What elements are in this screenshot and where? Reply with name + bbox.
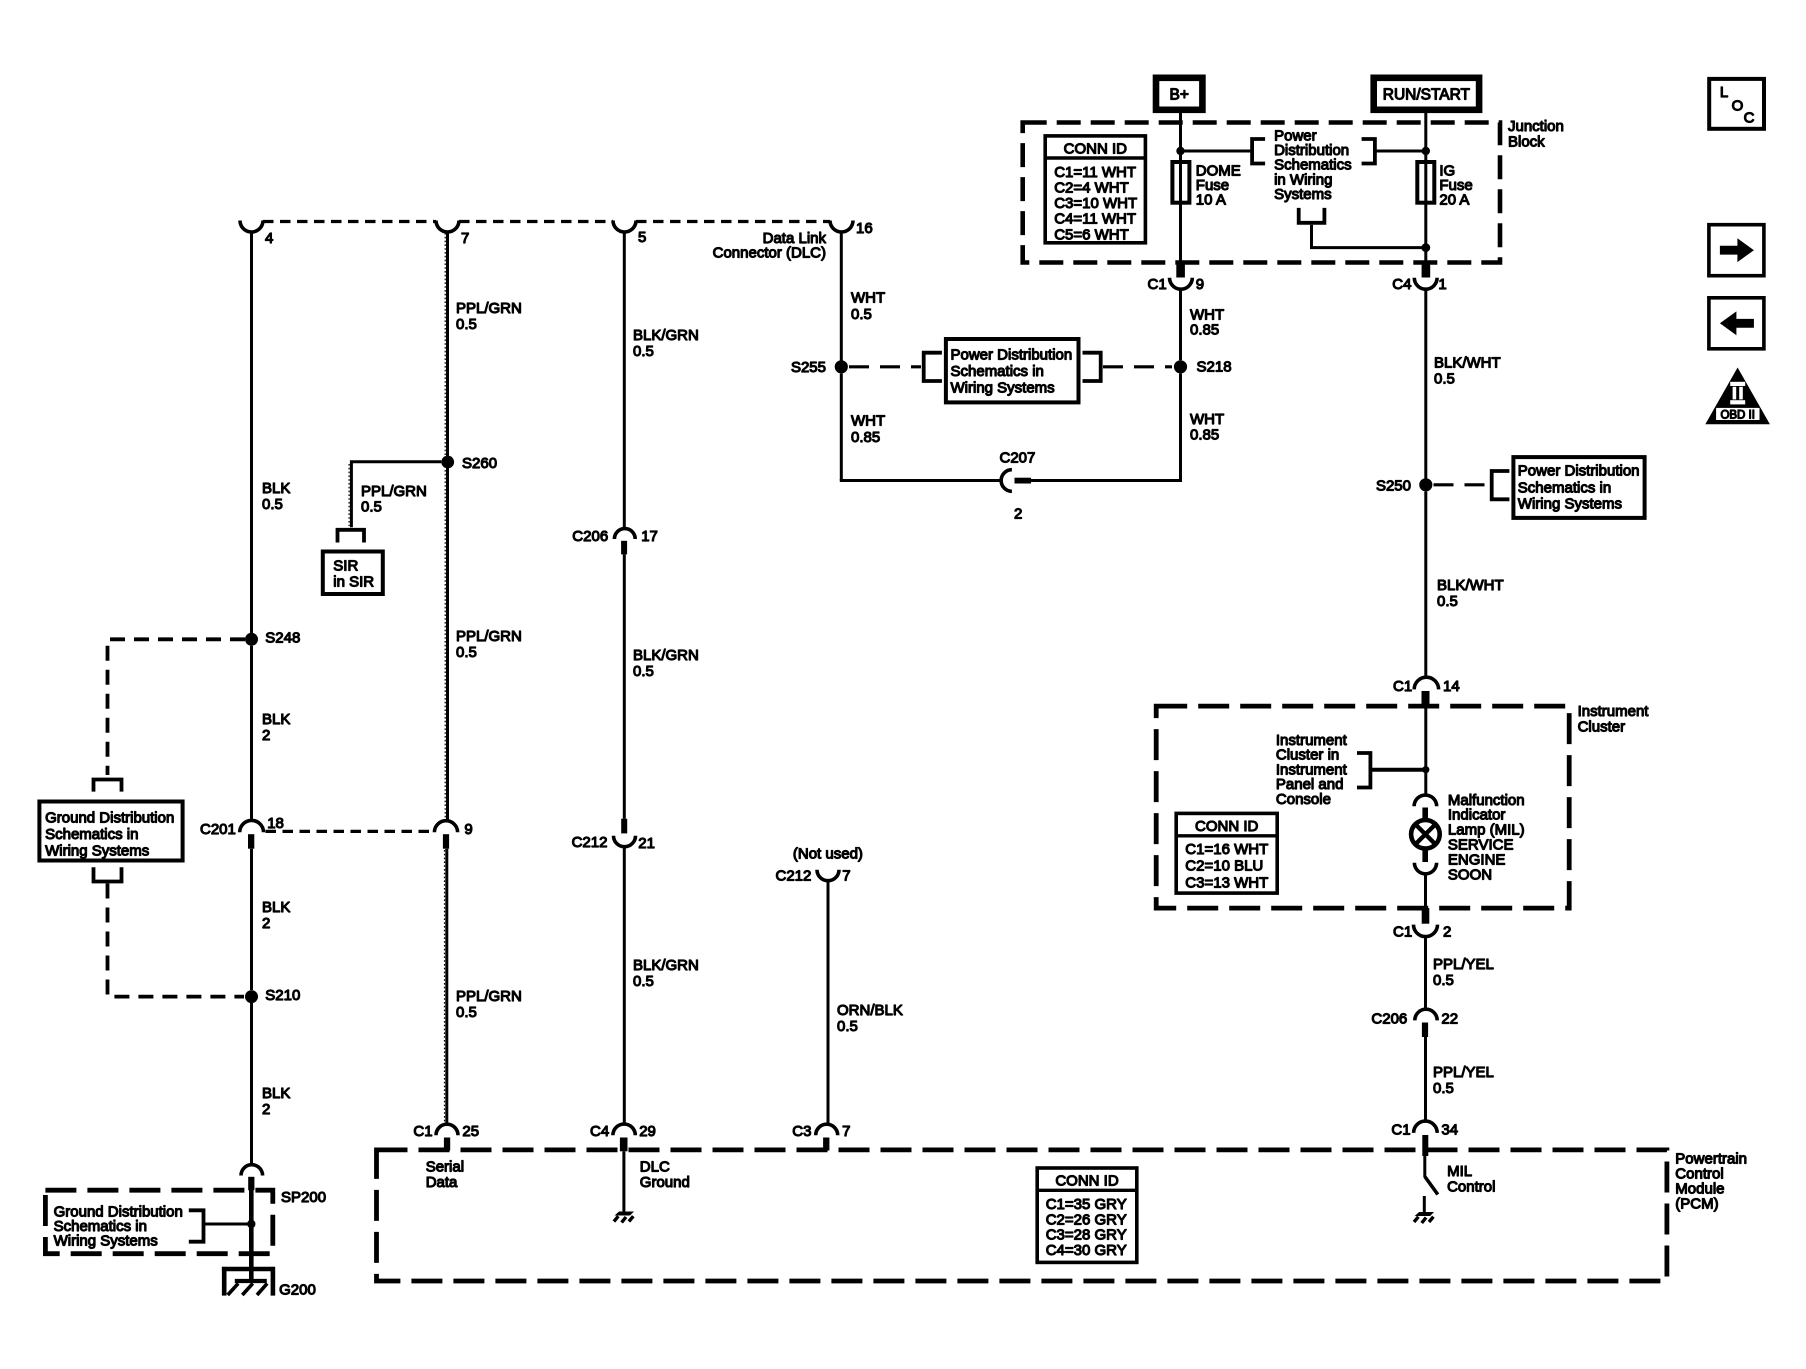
svg-text:C: C — [1744, 109, 1755, 126]
svg-text:C1: C1 — [1148, 276, 1167, 293]
enclosure: SP200 dashed box — [45, 1190, 272, 1254]
svg-text:PPL/YEL: PPL/YEL — [1433, 1064, 1494, 1081]
wire: ORN/BLK 0.5 from C212 pin 7 to C3 pin 7 — [827, 881, 830, 1123]
splice S248 — [245, 633, 258, 646]
svg-text:Wiring Systems: Wiring Systems — [1518, 495, 1622, 512]
wire: bracket to IG fuse feed — [1375, 150, 1426, 153]
svg-text:BLK/GRN: BLK/GRN — [633, 327, 699, 344]
svg-text:Wiring Systems: Wiring Systems — [54, 1233, 158, 1250]
svg-text:C212: C212 — [776, 867, 812, 884]
svg-text:CONN ID: CONN ID — [1064, 140, 1128, 157]
wire: BLK/GRN 0.5 from C212 to C4 pin 29 — [623, 847, 626, 1124]
wire: PPL/GRN 0.5 from DLC pin 7 to S260 — [446, 232, 449, 457]
wire: lamp feed inside cluster — [1424, 707, 1427, 796]
svg-text:5: 5 — [638, 229, 646, 246]
svg-text:C3=13 WHT: C3=13 WHT — [1185, 874, 1268, 891]
wire: lower bracket link to IG line — [1312, 225, 1426, 248]
svg-text:Ground: Ground — [640, 1174, 690, 1191]
node: tap on lamp feed — [1422, 766, 1429, 773]
svg-text:0.85: 0.85 — [1190, 427, 1219, 444]
connector C4 pin 29 (PCM) — [613, 1124, 635, 1135]
svg-text:PPL/GRN: PPL/GRN — [456, 628, 522, 645]
bracket: SIR callout bracket — [338, 530, 365, 543]
enclosure: Junction Block dashed box — [1023, 123, 1500, 263]
svg-text:Systems: Systems — [1274, 186, 1332, 203]
svg-text:14: 14 — [1443, 678, 1460, 695]
wire: WHT 0.5 from DLC pin 16 to S255 — [840, 232, 843, 362]
wire: DLC internal bus (dashed) — [263, 220, 830, 223]
svg-text:BLK/GRN: BLK/GRN — [633, 957, 699, 974]
svg-text:BLK: BLK — [262, 899, 290, 916]
svg-text:29: 29 — [639, 1123, 656, 1140]
wire: dashed reference S250 to Power Distribution callout — [1434, 483, 1489, 486]
svg-text:(PCM): (PCM) — [1675, 1196, 1718, 1213]
svg-text:Serial: Serial — [426, 1159, 464, 1176]
power feed box RUN/START — [1374, 78, 1479, 110]
svg-text:OBD II: OBD II — [1720, 409, 1755, 421]
svg-text:Schematics in: Schematics in — [951, 363, 1044, 380]
svg-text:0.5: 0.5 — [851, 306, 872, 323]
svg-text:C3: C3 — [792, 1123, 811, 1140]
svg-text:4: 4 — [265, 230, 273, 247]
wire: callout link to lamp feed — [1370, 768, 1425, 772]
bracket: callout bracket below Ground Distribution box — [94, 867, 122, 881]
node: junction at IG line — [1421, 243, 1430, 252]
svg-text:Schematics in: Schematics in — [45, 826, 138, 843]
bracket: S250 callout bracket — [1492, 471, 1510, 499]
connector C206 pin 22 (in-line) — [1415, 1009, 1437, 1020]
wire: C207 bus left segment — [840, 479, 1001, 482]
svg-text:C207: C207 — [1000, 450, 1036, 467]
svg-text:2: 2 — [262, 915, 270, 932]
svg-text:C1=16 WHT: C1=16 WHT — [1185, 841, 1268, 858]
icon: LOC box — [1709, 79, 1764, 129]
table: CONN ID (Instrument Cluster) — [1176, 813, 1277, 893]
svg-text:BLK: BLK — [262, 711, 290, 728]
wire: BLK 2 from S210 to SP200 — [250, 1003, 253, 1164]
splice S210 — [245, 990, 258, 1003]
connector C207 pin 2 (in-line, horizontal) — [1001, 470, 1012, 492]
wire: PPL/GRN 0.5 from pin 9 to C1 pin 25 — [445, 849, 448, 1123]
svg-text:BLK: BLK — [262, 1085, 290, 1102]
svg-text:C2=10 BLU: C2=10 BLU — [1185, 858, 1263, 875]
svg-text:CONN ID: CONN ID — [1055, 1173, 1119, 1190]
svg-text:7: 7 — [461, 230, 469, 247]
svg-text:C201: C201 — [200, 821, 236, 838]
svg-text:C4: C4 — [1392, 276, 1411, 293]
bracket: Power Distribution callout left bracket — [924, 353, 942, 381]
svg-text:S210: S210 — [265, 987, 300, 1004]
fuse IG Fuse 20 A — [1417, 162, 1434, 203]
svg-text:C206: C206 — [1371, 1011, 1407, 1028]
wire: BLK 2 from C201 to S210 — [250, 849, 253, 990]
svg-text:MIL: MIL — [1447, 1163, 1472, 1180]
svg-text:BLK/WHT: BLK/WHT — [1437, 577, 1504, 594]
connector C1 pin 34 (PCM input) — [1414, 1121, 1438, 1133]
svg-text:20 A: 20 A — [1439, 191, 1469, 208]
connector C212 pin 21 (in-line) — [621, 819, 627, 834]
svg-text:SOON: SOON — [1448, 866, 1492, 883]
splice pack SP200 terminal arc — [241, 1165, 263, 1176]
svg-text:C1: C1 — [1391, 1122, 1410, 1139]
svg-text:BLK: BLK — [262, 480, 290, 497]
svg-text:C3=10 WHT: C3=10 WHT — [1054, 195, 1137, 212]
svg-text:PPL/GRN: PPL/GRN — [456, 300, 522, 317]
svg-text:Ground Distribution: Ground Distribution — [45, 810, 174, 827]
wire: BLK 0.5 from DLC pin 4 down to S248 — [250, 232, 253, 634]
wire: DLC ground lead inside PCM — [622, 1151, 625, 1212]
node: DLC pin 5 terminal — [613, 221, 636, 233]
svg-text:Junction: Junction — [1508, 118, 1564, 135]
svg-text:0.5: 0.5 — [456, 644, 477, 661]
svg-text:1: 1 — [1438, 276, 1446, 293]
wire: BLK 2 from S248 to C201 — [250, 646, 253, 821]
connector C206 pin 17 (in-line) — [614, 529, 635, 539]
svg-text:0.5: 0.5 — [633, 973, 654, 990]
connector C1 pin 2 (instrument cluster output) — [1422, 908, 1430, 924]
svg-text:0.5: 0.5 — [633, 663, 654, 680]
svg-text:C212: C212 — [572, 834, 608, 851]
svg-text:S255: S255 — [791, 359, 826, 376]
svg-text:0.5: 0.5 — [1433, 1080, 1454, 1097]
svg-text:S248: S248 — [265, 629, 300, 646]
splice S260 — [441, 456, 454, 469]
bracket: callout bracket above Ground Distribution box — [94, 780, 122, 792]
node: fuse feed tap (IG) — [1422, 147, 1430, 155]
wire: B+ feed into junction block — [1179, 110, 1182, 162]
svg-text:in SIR: in SIR — [333, 574, 374, 591]
svg-text:SIR: SIR — [333, 558, 358, 575]
wire: fuse bus to left bracket — [1181, 150, 1251, 153]
svg-text:22: 22 — [1441, 1011, 1458, 1028]
reference box: SIR in SIR — [323, 552, 383, 595]
node: fuse feed tap (DOME) — [1176, 147, 1184, 155]
connector C1 pin 14 (instrument cluster) — [1414, 677, 1438, 689]
svg-text:C4=11 WHT: C4=11 WHT — [1054, 211, 1136, 228]
svg-text:PPL/YEL: PPL/YEL — [1433, 956, 1494, 973]
svg-text:2: 2 — [1014, 506, 1022, 523]
svg-text:C4=30 GRY: C4=30 GRY — [1046, 1242, 1127, 1259]
reference box: Power Distribution Schematics in Wiring Systems (S250) — [1513, 457, 1644, 518]
enclosure: Instrument Cluster dashed box — [1156, 706, 1569, 908]
splice S218 — [1174, 360, 1187, 373]
svg-text:Schematics in: Schematics in — [1518, 479, 1611, 496]
svg-text:10 A: 10 A — [1196, 191, 1226, 208]
svg-text:0.85: 0.85 — [1190, 322, 1219, 339]
wire: PPL/GRN 0.5 branch from S260 to SIR — [351, 462, 441, 528]
lamp: Malfunction Indicator Lamp (MIL) — [1411, 795, 1440, 908]
svg-text:16: 16 — [856, 220, 873, 237]
fuse DOME Fuse 10 A — [1179, 162, 1182, 203]
connector pin 9 (in-line, DLC side) — [434, 821, 457, 833]
svg-text:2: 2 — [1443, 924, 1451, 941]
connector C1 pin 9 (junction block output) — [1176, 262, 1185, 278]
svg-text:C1=11 WHT: C1=11 WHT — [1054, 164, 1136, 181]
svg-text:C2=4 WHT: C2=4 WHT — [1054, 180, 1129, 197]
svg-text:0.5: 0.5 — [1437, 593, 1458, 610]
svg-text:Instrument: Instrument — [1578, 703, 1650, 720]
bracket: power distribution lower bracket — [1299, 208, 1325, 223]
icon: forward arrow box — [1709, 225, 1764, 276]
svg-text:SP200: SP200 — [281, 1189, 326, 1206]
wire: PPL/YEL 0.5 from C1 pin 2 to C206 pin 22 — [1424, 936, 1427, 1009]
node: DLC pin 16 terminal — [830, 221, 853, 233]
bracket: power distribution bracket (left) — [1252, 139, 1265, 164]
bracket: Power Distribution callout right bracket — [1083, 353, 1101, 381]
wire: BLK/WHT 0.5 from C4 pin 1 to S250 — [1424, 289, 1427, 479]
wire: BLK/WHT 0.5 from S250 to C1 pin 14 — [1424, 491, 1427, 678]
reference box: Ground Distribution Schematics in Wiring Systems — [39, 802, 182, 861]
svg-text:ORN/BLK: ORN/BLK — [837, 1002, 903, 1019]
wire: PPL/GRN 0.5 from S260 to pin 9 — [446, 468, 449, 821]
svg-text:0.5: 0.5 — [456, 316, 477, 333]
wire: SP200 callout link — [204, 1223, 252, 1226]
svg-text:WHT: WHT — [1190, 411, 1224, 428]
svg-text:Power Distribution: Power Distribution — [1518, 463, 1640, 480]
connector C3 pin 7 (PCM) — [816, 1124, 838, 1135]
svg-text:0.5: 0.5 — [262, 496, 283, 513]
wire: dashed reference callout to S218 — [1103, 365, 1172, 368]
svg-text:CONN ID: CONN ID — [1195, 818, 1259, 835]
wire: PPL/YEL 0.5 from C206 pin 22 to C1 pin 34 — [1424, 1037, 1427, 1121]
enclosure: Powertrain Control Module dashed box — [377, 1150, 1667, 1281]
svg-text:Control: Control — [1447, 1179, 1495, 1196]
table: CONN ID (PCM) — [1037, 1168, 1137, 1262]
ground: DLC ground (chassis) — [614, 1212, 635, 1223]
svg-text:Block: Block — [1508, 134, 1545, 151]
svg-text:7: 7 — [842, 1123, 850, 1140]
svg-text:17: 17 — [641, 528, 658, 545]
svg-text:34: 34 — [1441, 1122, 1458, 1139]
wire: IG fuse output to C4 pin 1 — [1424, 203, 1427, 262]
svg-text:C206: C206 — [572, 528, 608, 545]
svg-text:C5=6 WHT: C5=6 WHT — [1054, 226, 1129, 243]
connector C201 pin 18 (in-line) — [240, 820, 264, 832]
bracket: SP200 callout bracket — [189, 1210, 204, 1241]
wire: dashed reference from S248 to Ground Distribution callout — [108, 639, 246, 775]
wire: WHT 0.85 from S255 down to C207 — [840, 373, 843, 480]
svg-text:PPL/GRN: PPL/GRN — [456, 988, 522, 1005]
svg-text:C4: C4 — [590, 1123, 609, 1140]
icon: OBD II triangle — [1705, 368, 1770, 425]
svg-text:21: 21 — [638, 835, 655, 852]
reference box: Power Distribution Schematics in Wiring Systems (S255/S218) — [946, 339, 1079, 402]
svg-text:Wiring Systems: Wiring Systems — [951, 380, 1055, 397]
svg-text:RUN/START: RUN/START — [1383, 87, 1471, 104]
svg-text:L: L — [1720, 84, 1728, 101]
svg-text:0.5: 0.5 — [1434, 371, 1455, 388]
svg-text:Cluster: Cluster — [1578, 719, 1626, 736]
svg-text:DLC: DLC — [640, 1159, 670, 1176]
svg-text:WHT: WHT — [851, 412, 885, 429]
svg-text:0.5: 0.5 — [837, 1018, 858, 1035]
svg-text:(Not used): (Not used) — [793, 845, 863, 862]
svg-text:WHT: WHT — [851, 289, 885, 306]
svg-text:S250: S250 — [1376, 477, 1411, 494]
ground G200 — [222, 1267, 275, 1296]
svg-text:BLK/GRN: BLK/GRN — [633, 647, 699, 664]
node: DLC pin 4 terminal — [240, 221, 263, 233]
bracket: power distribution bracket (right) — [1362, 139, 1375, 164]
svg-text:2: 2 — [262, 1101, 270, 1118]
svg-text:B+: B+ — [1170, 87, 1189, 104]
svg-text:C1: C1 — [1393, 924, 1412, 941]
connector C4 pin 1 (junction block output) — [1422, 262, 1431, 278]
wire: C207 bus right segment up to S218 — [1031, 373, 1181, 480]
svg-text:S260: S260 — [462, 455, 497, 472]
wire: BLK/GRN 0.5 from C206 to C212 — [623, 554, 626, 818]
wire: splice pack bus to G200 — [249, 1190, 254, 1280]
connector C1 pin 25 (PCM) — [436, 1124, 458, 1135]
svg-text:0.85: 0.85 — [851, 429, 880, 446]
wire: dashed DLC harness link pin18 to pin9 — [266, 830, 434, 833]
svg-text:O: O — [1732, 97, 1744, 114]
svg-text:0.5: 0.5 — [633, 343, 654, 360]
svg-text:0.5: 0.5 — [361, 499, 382, 516]
svg-text:C1: C1 — [1393, 678, 1412, 695]
svg-text:Data: Data — [426, 1174, 458, 1191]
svg-text:0.5: 0.5 — [456, 1004, 477, 1021]
svg-text:Wiring Systems: Wiring Systems — [45, 843, 149, 860]
svg-text:9: 9 — [1196, 276, 1204, 293]
wire: switch lower contact — [1423, 1196, 1426, 1212]
bracket: instrument cluster callout bracket — [1357, 753, 1370, 788]
svg-text:S218: S218 — [1197, 359, 1232, 376]
svg-text:25: 25 — [462, 1123, 479, 1140]
svg-text:Power Distribution: Power Distribution — [951, 347, 1073, 364]
wire: BLK/GRN 0.5 from DLC pin 5 to C206 — [623, 232, 626, 529]
wire: dashed reference from callout down to S210 — [108, 884, 245, 997]
svg-text:18: 18 — [267, 815, 284, 832]
ground: PCM internal ground — [1414, 1212, 1435, 1223]
svg-text:G200: G200 — [279, 1282, 316, 1299]
wire: DOME fuse output to C1 pin 9 — [1179, 203, 1182, 262]
icon: back arrow box — [1709, 298, 1764, 349]
svg-text:Console: Console — [1276, 791, 1331, 808]
node: DLC pin 7 terminal — [436, 221, 459, 233]
power feed box B+ — [1156, 78, 1202, 110]
wire: RUN/START feed into junction block — [1424, 110, 1427, 162]
svg-text:0.5: 0.5 — [1433, 972, 1454, 989]
svg-text:9: 9 — [464, 821, 472, 838]
switch: MIL control driver — [1423, 1156, 1426, 1177]
svg-text:7: 7 — [842, 867, 850, 884]
svg-text:BLK/WHT: BLK/WHT — [1434, 355, 1501, 372]
wire: WHT 0.85 from C1 pin 9 down to S218 — [1179, 289, 1182, 361]
table: CONN ID (Junction Block) — [1045, 136, 1145, 243]
svg-text:C1: C1 — [413, 1123, 432, 1140]
svg-text:2: 2 — [262, 727, 270, 744]
splice S250 — [1419, 478, 1432, 491]
svg-text:Connector (DLC): Connector (DLC) — [713, 245, 826, 262]
splice S255 — [835, 360, 848, 373]
wire: dashed reference S255 to Power Distribution callout — [849, 365, 921, 368]
